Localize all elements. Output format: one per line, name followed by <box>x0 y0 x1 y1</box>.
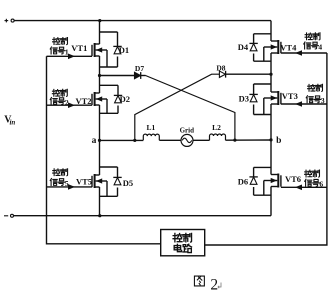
node b <box>269 138 272 141</box>
negative input terminal <box>4 215 8 217</box>
node: bottom of left leg <box>98 214 101 217</box>
label control signal 4 <box>305 33 312 40</box>
wire: VT6 drain branch to D6 <box>254 166 271 168</box>
wire: VT1 source node to D7 <box>98 74 101 77</box>
svg-text:D3: D3 <box>239 94 249 104</box>
wire: L2 to b <box>226 139 272 141</box>
wire: gate signal 6 with arrow <box>281 186 327 188</box>
transistor VT1 <box>92 43 107 67</box>
wire: right leg vertical rail <box>270 21 272 41</box>
junction left cross vertical <box>133 139 136 142</box>
svg-text:VT5: VT5 <box>76 177 92 187</box>
wire: VT1 drain branch to D1 <box>100 31 118 33</box>
svg-text:3: 3 <box>321 96 325 105</box>
svg-text:D1: D1 <box>119 45 129 55</box>
wire: gate signal 1 with arrow <box>47 55 93 57</box>
wire: bottom negative rail <box>13 215 271 217</box>
svg-text:b: b <box>276 136 281 146</box>
label control signal 1 <box>53 38 60 45</box>
label control signal 5 <box>53 169 60 176</box>
transistor VT6 <box>264 174 281 196</box>
svg-text:in: in <box>9 119 15 127</box>
svg-text:2: 2 <box>65 98 69 107</box>
diode D2 <box>114 95 122 102</box>
wire: a leg vertical up to D8 diagonal <box>135 74 220 140</box>
label control signal 3 <box>308 84 315 91</box>
AC source Grid <box>181 134 193 146</box>
wire: D8 to right leg <box>226 73 271 75</box>
svg-text:VT3: VT3 <box>282 91 298 101</box>
wire: VT4 drain branch to D4 <box>254 33 271 35</box>
transistor VT5 <box>92 174 107 196</box>
diode D3 <box>249 94 257 101</box>
svg-text:D2: D2 <box>120 94 130 104</box>
wire: VT6 source bus to D6 <box>254 194 271 196</box>
svg-text:D6: D6 <box>238 176 248 186</box>
transistor VT2 <box>92 92 107 113</box>
wire: VT1 source bus to D1 <box>100 66 118 68</box>
wire: a to L1 <box>100 139 144 141</box>
svg-text:a: a <box>92 136 97 146</box>
svg-text:D8: D8 <box>216 63 225 72</box>
transistor VT3 <box>264 91 281 115</box>
svg-text:D4: D4 <box>238 42 249 52</box>
wire: VT4 source bus to D4 <box>254 60 271 62</box>
wire: right control rail <box>205 53 327 245</box>
wire: L1 to Grid source <box>159 139 181 141</box>
svg-text:D5: D5 <box>123 178 133 188</box>
caption Figure 2 <box>194 276 204 286</box>
diode D6 <box>249 177 257 184</box>
svg-text:VT6: VT6 <box>285 174 301 184</box>
node a <box>98 139 101 142</box>
svg-text:4: 4 <box>318 42 322 51</box>
positive input terminal <box>5 20 9 22</box>
diode D5 <box>113 177 121 184</box>
svg-text:6: 6 <box>319 180 323 189</box>
node: top of left leg <box>98 19 101 22</box>
wire: left control rail <box>47 56 161 244</box>
wire: left leg vertical rail <box>99 21 101 44</box>
wire: D7 diagonal down to b leg <box>141 75 146 77</box>
diode D8 <box>219 71 225 78</box>
diode D7 <box>135 72 141 79</box>
label control signal 6 <box>305 170 312 177</box>
wire: VT3 source bus to D3 <box>254 114 271 116</box>
diode D4 <box>249 43 257 50</box>
svg-text:VT4: VT4 <box>280 42 297 52</box>
svg-text:Grid: Grid <box>180 127 194 135</box>
svg-text:D7: D7 <box>135 64 144 73</box>
svg-text:2: 2 <box>210 276 218 291</box>
svg-text:1: 1 <box>65 47 69 56</box>
wire: gate signal 2 with arrow <box>47 104 93 106</box>
control circuit box <box>161 230 205 256</box>
wire: VT5 drain branch to D5 <box>100 166 118 168</box>
label control signal 2 <box>52 89 59 96</box>
wire: gate signal 3 with arrow <box>281 103 327 105</box>
inductor L2 <box>210 134 226 140</box>
wire: VT2 source bus to D2 <box>100 112 119 114</box>
transistor VT4 <box>264 40 281 61</box>
inductor L1 <box>143 134 159 140</box>
svg-text:L2: L2 <box>212 123 221 132</box>
svg-text:VT1: VT1 <box>71 43 87 53</box>
wire: VT5 source bus to D5 <box>100 195 118 197</box>
svg-text:5: 5 <box>65 179 69 188</box>
svg-text:L1: L1 <box>147 123 156 132</box>
junction right cross vertical <box>233 139 236 142</box>
wire: top positive rail <box>14 20 271 22</box>
diode D1 <box>113 46 121 53</box>
svg-text:VT2: VT2 <box>75 96 91 106</box>
wire: Grid to L2 <box>193 139 210 141</box>
wire: gate signal 4 with arrow <box>281 52 327 54</box>
wire: VT2 drain branch to D2 <box>100 84 119 86</box>
wire: gate signal 5 with arrow <box>47 186 93 188</box>
wire: VT3 drain branch to D3 <box>254 83 271 85</box>
